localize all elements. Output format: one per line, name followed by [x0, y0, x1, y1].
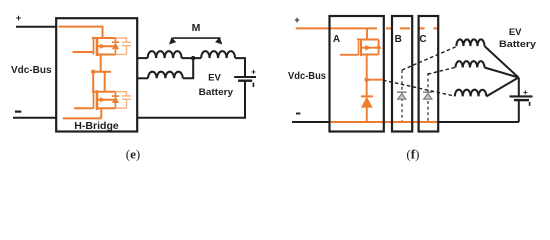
- wire midpoint down-left: [92, 72, 94, 92]
- wire battery down (f): [518, 100, 520, 122]
- inductor L1 (e): [148, 51, 182, 58]
- wire Q2 source to bottom rail: [100, 108, 102, 118]
- inductor L3 (f): [455, 90, 487, 97]
- wire dashed C-phase to L2: [428, 67, 456, 74]
- inductor L1 (f): [456, 39, 484, 46]
- wire between L1 and L2: [182, 57, 202, 59]
- wire midpoint to Q2 drain: [104, 72, 106, 92]
- wire Q3 source down (f): [366, 55, 368, 97]
- transistor Q1 arrow: [100, 44, 106, 49]
- wire junction stub to box edge (f): [367, 79, 383, 81]
- node midpoint junction (e): [91, 70, 95, 74]
- transistor Q3 (MOSFET in A): [340, 28, 379, 56]
- transistor Q1 (top MOSFET): [73, 37, 116, 56]
- capacitor C2 (snubber of Q2): [116, 92, 132, 109]
- svg-text:Battery: Battery: [199, 87, 234, 98]
- svg-text:(f): (f): [406, 147, 419, 162]
- wire battery to bottom return (e): [137, 81, 245, 118]
- wire dashed B-phase to L1: [402, 47, 456, 70]
- svg-text:+: +: [16, 13, 22, 24]
- wire midpoint stub (e): [93, 71, 111, 73]
- capacitor C1 (snubber of Q1): [116, 38, 132, 55]
- H-Bridge box: [56, 18, 137, 131]
- transistor Q2 (bottom MOSFET): [74, 90, 116, 110]
- box module A: [330, 16, 384, 132]
- svg-text:A: A: [333, 34, 340, 45]
- wire output top (e): [137, 57, 147, 59]
- diode D2 (body diode of Q2): [112, 92, 119, 109]
- wire DC rail bottom (f) orange: [330, 121, 439, 123]
- node Vdc- label (f): [296, 113, 300, 115]
- node tap junction (e): [191, 56, 195, 60]
- svg-text:M: M: [192, 22, 201, 34]
- box module C: [419, 16, 439, 132]
- inductor L3 (e): [148, 72, 183, 79]
- battery BT1 (e): [234, 76, 256, 78]
- coupling arrow M: [173, 37, 221, 39]
- wire star point to battery (f): [518, 78, 520, 97]
- wire DC rail top (f) dashed extension: [386, 27, 438, 29]
- wire L3 to tap: [183, 59, 193, 78]
- wire DC rail top (f) solid: [296, 27, 377, 29]
- wire Vdc+ to H-Bridge (e): [16, 26, 56, 28]
- switch cell in B (gray diode): [397, 92, 407, 99]
- inductor L2 (e): [201, 51, 235, 58]
- diode D1 (body diode of Q1): [112, 38, 119, 55]
- box module B: [392, 16, 412, 132]
- wire Q1 source to midpoint: [100, 55, 102, 72]
- wire L3 to star point: [486, 78, 518, 97]
- wire diode anode to bottom rail (f): [366, 108, 368, 122]
- svg-text:B: B: [395, 34, 402, 45]
- wire L2 to star point: [485, 68, 519, 78]
- svg-text:+: +: [251, 67, 256, 77]
- wire dashed vertical in C: [427, 73, 429, 121]
- svg-text:H-Bridge: H-Bridge: [74, 121, 119, 132]
- wire L2 to battery (e): [235, 58, 245, 77]
- wire bottom return to battery (f): [438, 121, 519, 123]
- svg-text:EV: EV: [509, 27, 522, 38]
- svg-text:C: C: [419, 34, 426, 45]
- svg-text:EV: EV: [208, 73, 221, 84]
- wire DC rail top inside (e): [59, 27, 103, 38]
- transistor Q2 arrow: [100, 97, 106, 102]
- wire Vdc- left (f): [292, 121, 330, 123]
- wire DC rail bottom inside (e): [63, 117, 102, 119]
- wire L1 to star point: [485, 46, 519, 77]
- node phase junction (f): [364, 77, 369, 82]
- wire dashed vertical in B: [401, 70, 403, 121]
- inductor L2 (f): [456, 61, 485, 67]
- transistor Q3 body diode mark: [375, 44, 381, 49]
- svg-text:+: +: [294, 15, 300, 26]
- switch cell in C (gray diode): [423, 92, 433, 99]
- wire output bottom (e): [137, 77, 148, 79]
- wire Vdc- to H-Bridge (e): [13, 117, 56, 119]
- svg-text:Vdc-Bus: Vdc-Bus: [11, 65, 52, 76]
- svg-text:(e): (e): [126, 147, 140, 162]
- battery BT2 (f): [510, 95, 533, 97]
- svg-text:Battery: Battery: [499, 39, 537, 50]
- transistor Q3 arrow: [365, 45, 372, 50]
- svg-text:Vdc-Bus: Vdc-Bus: [288, 71, 326, 82]
- diode D3 (freewheel in A): [361, 95, 373, 97]
- node Vdc- label (e): [15, 110, 21, 112]
- wire dashed A-phase to L3: [383, 80, 454, 96]
